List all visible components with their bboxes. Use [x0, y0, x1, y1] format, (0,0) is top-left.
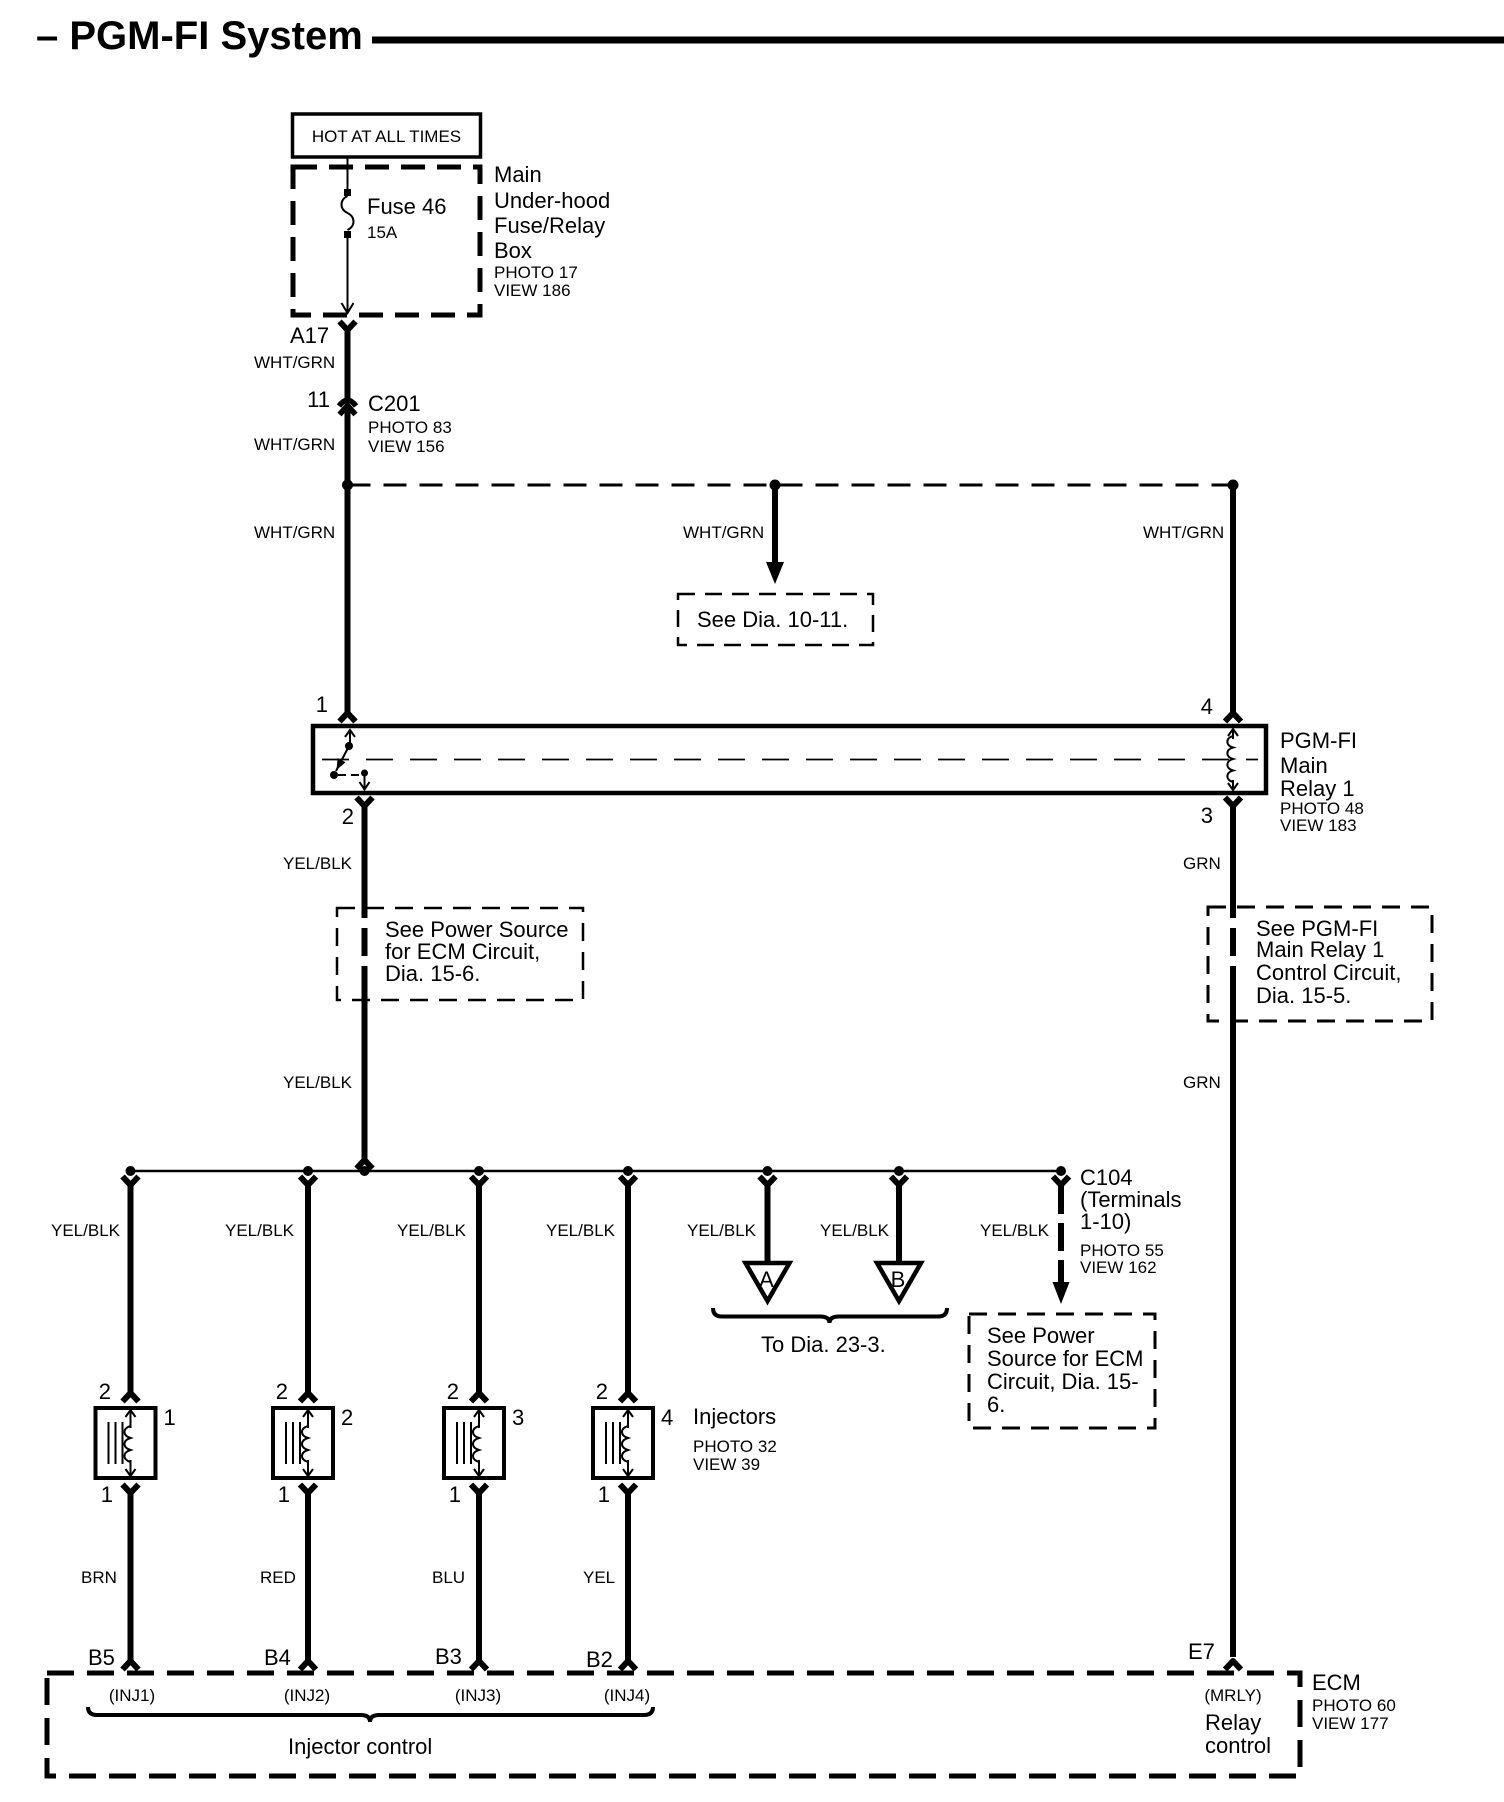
- wire WHT/GRN A17 to C201: [254, 327, 348, 398]
- svg-text:Dia. 15-6.: Dia. 15-6.: [385, 961, 480, 986]
- svg-text:Relay: Relay: [1205, 1710, 1261, 1735]
- svg-text:Dia. 15-5.: Dia. 15-5.: [1256, 983, 1351, 1008]
- svg-text:See Power: See Power: [987, 1323, 1095, 1348]
- svg-text:VIEW 162: VIEW 162: [1080, 1258, 1157, 1277]
- wire WHT/GRN right branch to relay pin 4: [1143, 485, 1233, 712]
- svg-text:E7: E7: [1188, 1639, 1215, 1664]
- wire BRN injector 1 to ECM B5: [81, 1485, 139, 1670]
- svg-text:VIEW 177: VIEW 177: [1312, 1714, 1389, 1733]
- svg-text:YEL/BLK: YEL/BLK: [980, 1221, 1050, 1240]
- reference box See PGM-FI Main Relay 1 Control Circuit Dia. 15-5.: [1208, 907, 1432, 1021]
- fuse F46 15A: [342, 189, 447, 242]
- svg-text:2: 2: [596, 1379, 608, 1404]
- svg-text:YEL/BLK: YEL/BLK: [397, 1221, 467, 1240]
- reference box See Dia. 10-11.: [678, 594, 873, 645]
- drop wire 3 to injector 3: [471, 1177, 487, 1402]
- bus wire YEL/BLK distribution: [131, 1170, 1062, 1173]
- svg-text:Box: Box: [494, 238, 532, 263]
- terminal A: [746, 1263, 790, 1301]
- wire RED injector 2 to ECM B4: [260, 1485, 316, 1670]
- wire WHT/GRN C201 down to relay pin 1: [254, 410, 348, 712]
- svg-text:PHOTO 83: PHOTO 83: [368, 418, 452, 437]
- svg-text:ECM: ECM: [1312, 1670, 1361, 1695]
- svg-text:2: 2: [276, 1379, 288, 1404]
- dashed branch wire at node: [348, 484, 1234, 487]
- svg-text:Injector control: Injector control: [288, 1734, 432, 1759]
- connector C201 pin 11: [307, 387, 452, 456]
- svg-text:YEL/BLK: YEL/BLK: [820, 1221, 890, 1240]
- injector 4: [593, 1379, 673, 1507]
- svg-text:Relay 1: Relay 1: [1280, 776, 1355, 801]
- svg-text:YEL/BLK: YEL/BLK: [225, 1221, 295, 1240]
- svg-text:PHOTO 60: PHOTO 60: [1312, 1696, 1396, 1715]
- svg-text:YEL/BLK: YEL/BLK: [687, 1221, 757, 1240]
- brace To Dia. 23-3.: [713, 1308, 947, 1357]
- pin 3 of relay: [1201, 798, 1241, 829]
- relay coil: [1227, 729, 1238, 790]
- connector GRN wire into ECM E7: [1225, 1661, 1241, 1670]
- drop wire 1 to injector 1: [123, 1177, 139, 1402]
- svg-text:B2: B2: [586, 1647, 613, 1672]
- svg-text:C201: C201: [368, 391, 421, 416]
- svg-text:PHOTO 32: PHOTO 32: [693, 1437, 777, 1456]
- svg-text:B: B: [891, 1267, 906, 1292]
- svg-text:control: control: [1205, 1733, 1271, 1758]
- svg-text:1: 1: [278, 1482, 290, 1507]
- svg-text:A17: A17: [290, 323, 329, 348]
- connector at bus from relay wire: [357, 1160, 373, 1169]
- svg-text:YEL: YEL: [583, 1568, 615, 1587]
- wire YEL/BLK relay pin 2 down to bus: [283, 806, 365, 1160]
- junction node middle: [770, 480, 781, 491]
- svg-text:15A: 15A: [367, 223, 398, 242]
- wire GRN relay pin 3 down to ECM: [1183, 806, 1233, 1657]
- svg-text:GRN: GRN: [1183, 1073, 1221, 1092]
- svg-text:(INJ4): (INJ4): [604, 1686, 650, 1705]
- svg-text:Main: Main: [1280, 753, 1328, 778]
- svg-text:PGM-FI: PGM-FI: [1280, 728, 1357, 753]
- connector A17: [290, 322, 356, 349]
- wire BLU injector 3 to ECM B3: [432, 1485, 487, 1670]
- pin 1 of relay: [316, 692, 356, 722]
- wire YEL injector 4 to ECM B2: [583, 1485, 636, 1670]
- svg-text:Fuse 46: Fuse 46: [367, 194, 447, 219]
- svg-text:(INJ2): (INJ2): [284, 1686, 330, 1705]
- injector 2: [273, 1379, 353, 1507]
- reference box See Power Source for ECM Circuit Dia. 15-6.: [337, 908, 583, 1000]
- drop wire to terminal B: [891, 1177, 907, 1263]
- svg-text:3: 3: [1201, 803, 1213, 828]
- svg-text:YEL/BLK: YEL/BLK: [283, 854, 353, 873]
- branch arrow WHT/GRN to See Dia. 10-11.: [683, 490, 784, 584]
- svg-text:2: 2: [447, 1379, 459, 1404]
- svg-text:1: 1: [101, 1482, 113, 1507]
- svg-text:PHOTO 17: PHOTO 17: [494, 263, 578, 282]
- svg-text:1: 1: [164, 1405, 176, 1430]
- svg-text:1: 1: [598, 1482, 610, 1507]
- svg-text:4: 4: [1201, 694, 1213, 719]
- svg-text:– PGM-FI System: – PGM-FI System: [36, 14, 363, 58]
- svg-text:(MRLY): (MRLY): [1204, 1686, 1261, 1705]
- svg-text:VIEW 186: VIEW 186: [494, 281, 571, 300]
- Main Under-hood Fuse/Relay Box (dashed): [293, 162, 610, 315]
- injector 3: [444, 1379, 524, 1507]
- connector C104 dashed wire with arrow: [1053, 1165, 1182, 1304]
- ECM box (dashed): [47, 1670, 1396, 1776]
- svg-text:Control Circuit,: Control Circuit,: [1256, 960, 1401, 985]
- svg-text:GRN: GRN: [1183, 854, 1221, 873]
- svg-text:HOT AT ALL TIMES: HOT AT ALL TIMES: [312, 127, 461, 146]
- wire from HOT box into fuse: [347, 157, 349, 191]
- svg-text:3: 3: [512, 1405, 524, 1430]
- svg-text:B3: B3: [435, 1644, 462, 1669]
- svg-text:A: A: [759, 1267, 774, 1292]
- svg-text:2: 2: [99, 1379, 111, 1404]
- reference box See Power Source for ECM Circuit Dia. 15-6. (lower): [969, 1314, 1155, 1428]
- svg-text:B4: B4: [264, 1645, 291, 1670]
- svg-text:1: 1: [449, 1482, 461, 1507]
- svg-text:BRN: BRN: [81, 1568, 117, 1587]
- svg-text:6.: 6.: [987, 1392, 1005, 1417]
- svg-text:11: 11: [307, 387, 330, 412]
- junction dots on bus: [126, 1166, 1067, 1176]
- YEL/BLK labels row: [51, 1221, 1050, 1240]
- terminal B: [877, 1263, 921, 1301]
- svg-text:Fuse/Relay: Fuse/Relay: [494, 213, 605, 238]
- svg-text:YEL/BLK: YEL/BLK: [283, 1073, 353, 1092]
- svg-text:VIEW 39: VIEW 39: [693, 1455, 760, 1474]
- svg-text:VIEW 183: VIEW 183: [1280, 816, 1357, 835]
- svg-text:WHT/GRN: WHT/GRN: [254, 435, 335, 454]
- svg-text:To Dia. 23-3.: To Dia. 23-3.: [761, 1332, 886, 1357]
- svg-text:YEL/BLK: YEL/BLK: [51, 1221, 121, 1240]
- svg-text:VIEW 156: VIEW 156: [368, 437, 445, 456]
- junction node right: [1228, 480, 1239, 491]
- pin 4 of relay: [1201, 694, 1241, 722]
- svg-text:2: 2: [342, 804, 354, 829]
- relay contact (switch): [330, 730, 370, 790]
- svg-text:WHT/GRN: WHT/GRN: [254, 523, 335, 542]
- svg-text:1-10): 1-10): [1080, 1209, 1131, 1234]
- wire from fuse to box edge with arrow: [342, 238, 354, 313]
- svg-text:Source for ECM: Source for ECM: [987, 1346, 1144, 1371]
- svg-text:Circuit, Dia. 15-: Circuit, Dia. 15-: [987, 1369, 1139, 1394]
- svg-text:(INJ1): (INJ1): [109, 1686, 155, 1705]
- svg-text:YEL/BLK: YEL/BLK: [546, 1221, 616, 1240]
- injector 1: [96, 1379, 176, 1507]
- svg-text:Main: Main: [494, 162, 542, 187]
- svg-text:4: 4: [661, 1405, 673, 1430]
- svg-text:2: 2: [341, 1405, 353, 1430]
- drop wire 4 to injector 4: [620, 1177, 636, 1402]
- title: PGM-FI System: [36, 14, 1504, 58]
- svg-text:(INJ3): (INJ3): [455, 1686, 501, 1705]
- svg-text:WHT/GRN: WHT/GRN: [1143, 523, 1224, 542]
- relay PGM-FI Main Relay 1: [313, 726, 1364, 835]
- drop wire 2 to injector 2: [300, 1177, 316, 1402]
- power label HOT AT ALL TIMES: [293, 114, 481, 157]
- svg-text:BLU: BLU: [432, 1568, 465, 1587]
- svg-text:B5: B5: [88, 1645, 115, 1670]
- svg-text:WHT/GRN: WHT/GRN: [254, 353, 335, 372]
- svg-text:RED: RED: [260, 1568, 296, 1587]
- pin 2 of relay: [342, 798, 373, 830]
- junction node left: [342, 480, 353, 491]
- svg-text:Injectors: Injectors: [693, 1404, 776, 1429]
- svg-text:Under-hood: Under-hood: [494, 188, 610, 213]
- svg-text:WHT/GRN: WHT/GRN: [683, 523, 764, 542]
- svg-text:Main Relay 1: Main Relay 1: [1256, 937, 1384, 962]
- Injectors label: [693, 1404, 777, 1474]
- brace Injector control: [88, 1707, 653, 1759]
- function label Relay control: [1205, 1710, 1271, 1758]
- svg-text:See Dia. 10-11.: See Dia. 10-11.: [697, 607, 848, 632]
- svg-text:1: 1: [316, 692, 328, 717]
- drop wire to terminal A: [760, 1177, 776, 1263]
